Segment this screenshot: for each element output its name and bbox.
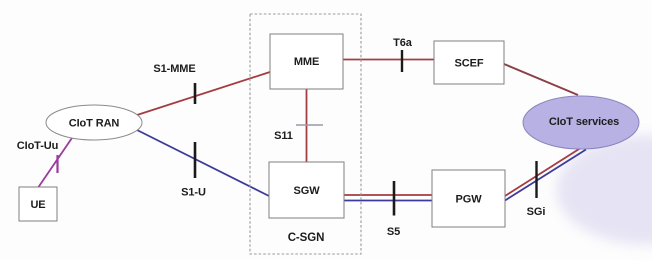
node MME <box>270 34 343 89</box>
svg-text:SGi: SGi <box>527 206 546 218</box>
svg-text:UE: UE <box>30 199 45 211</box>
svg-text:CIoT-Uu: CIoT-Uu <box>17 140 58 152</box>
wire CIoT-Uu (purple, UE to CIoT RAN) <box>39 135 75 187</box>
svg-text:S11: S11 <box>274 130 293 142</box>
svg-text:PGW: PGW <box>456 194 483 206</box>
svg-text:S1-MME: S1-MME <box>153 63 195 75</box>
reference tick S1-MME <box>194 83 197 104</box>
wire S11 (red, MME to SGW) <box>306 89 308 162</box>
reference tick S11 (gray horizontal) <box>296 124 323 126</box>
reference tick S5 <box>393 181 396 216</box>
reference tick T6a <box>401 50 403 72</box>
svg-text:CIoT RAN: CIoT RAN <box>69 118 120 130</box>
svg-text:S1-U: S1-U <box>181 187 206 199</box>
svg-text:SGW: SGW <box>294 185 321 197</box>
svg-text:MME: MME <box>294 56 319 68</box>
node UE <box>19 187 57 221</box>
wire SGi red (PGW to CIoT services) <box>505 147 583 197</box>
wire S5 red (SGW to PGW) <box>344 194 432 196</box>
wire SGi blue (PGW to CIoT services) <box>505 150 586 201</box>
svg-text:SCEF: SCEF <box>455 58 484 70</box>
node CIoT RAN (ellipse) <box>46 105 142 140</box>
node SGW <box>269 162 344 218</box>
wire SCEF to CIoT services (dark red) <box>504 64 578 95</box>
svg-text:S5: S5 <box>387 226 400 238</box>
node PGW <box>432 170 505 227</box>
node SCEF <box>434 41 504 84</box>
wire S1-U (blue, CIoT RAN to SGW) <box>135 129 269 196</box>
svg-text:CIoT services: CIoT services <box>549 116 619 128</box>
wire T6a (red, MME to SCEF) <box>343 59 434 61</box>
reference tick SGi <box>535 161 537 198</box>
wire S1-MME (red, CIoT RAN to MME) <box>137 72 270 115</box>
node CIoT services (ellipse) <box>523 96 639 149</box>
reference tick S1-U <box>194 142 197 178</box>
svg-text:C-SGN: C-SGN <box>288 232 325 244</box>
reference tick CIoT-Uu (purple) <box>56 155 58 173</box>
wire S5 blue (SGW to PGW) <box>344 200 432 202</box>
C-SGN dashed group box <box>250 14 361 254</box>
svg-text:T6a: T6a <box>393 37 413 49</box>
